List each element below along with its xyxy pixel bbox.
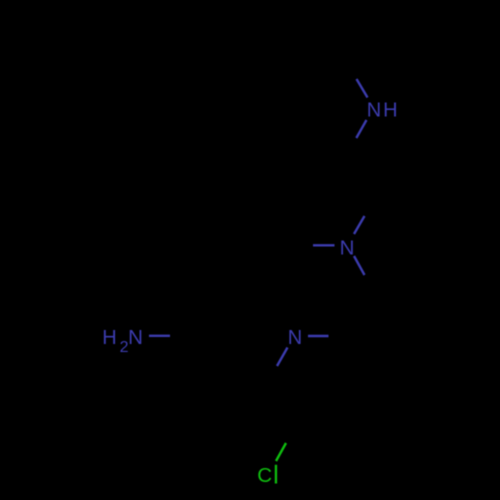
bond NH-CH2 (N half) <box>356 120 366 138</box>
atom label Cl : l drawn as bar <box>275 465 277 484</box>
bond N1-CH2 left horizontal (N half) <box>313 244 335 246</box>
bond N2-CH2 lower left (N half) <box>277 348 288 367</box>
svg-text:NH: NH <box>367 100 400 122</box>
bond CH2-N1 upper (N half) <box>354 216 365 234</box>
bond N2-CH2 right horizontal (N half) <box>308 335 329 337</box>
svg-text:N: N <box>340 236 355 259</box>
svg-text:H: H <box>102 327 116 349</box>
bond H2N-CH2 right horizontal (N half) <box>149 335 170 337</box>
bond Cl-CH2 (Cl half) <box>276 443 286 461</box>
svg-text:C: C <box>257 464 272 487</box>
bond N1-CH2 lower right (N half) <box>354 256 365 275</box>
bond CH3-NH (N half) <box>357 79 368 98</box>
svg-text:N: N <box>128 326 143 349</box>
svg-text:N: N <box>288 327 302 349</box>
